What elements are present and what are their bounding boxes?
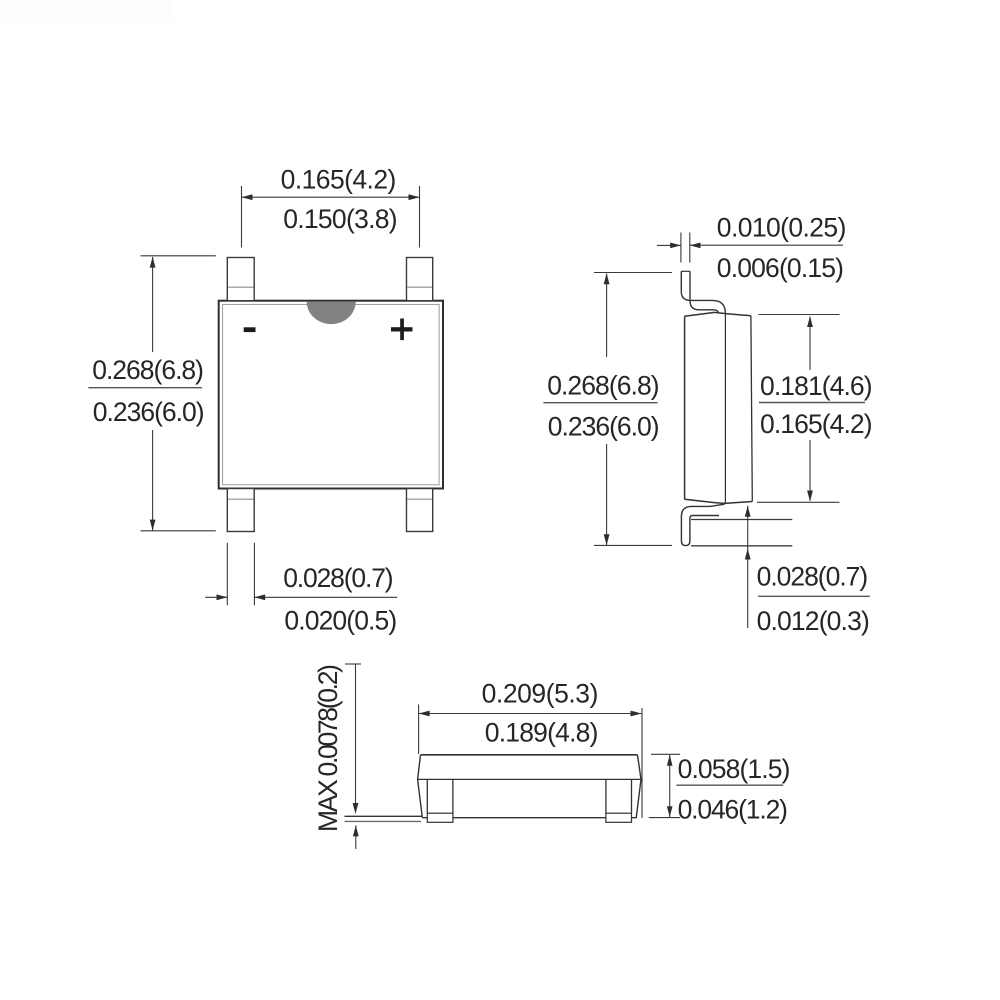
dimension MAX 0.0078(0.2) standoff (end view left) (345, 664, 361, 849)
svg-text:MAX 0.0078(0.2): MAX 0.0078(0.2) (313, 664, 343, 832)
svg-text:0.165(4.2): 0.165(4.2) (281, 165, 397, 195)
dimension 0.268(6.8)/0.236(6.0) left of side view (594, 273, 672, 546)
package body outline (front view) (219, 301, 443, 489)
svg-text:0.268(6.8): 0.268(6.8) (92, 355, 204, 385)
svg-text:0.020(0.5): 0.020(0.5) (284, 606, 397, 636)
right foot lead (end view) (606, 779, 632, 813)
mold parting line (end view) (418, 778, 641, 780)
dimension 0.165(4.2)/0.150(3.8) top of front view (242, 186, 420, 248)
package body outline (end view) (421, 754, 638, 756)
svg-text:0.165(4.2): 0.165(4.2) (760, 409, 873, 439)
svg-text:0.028(0.7): 0.028(0.7) (757, 562, 869, 592)
polarity index notch (gray semicircle) (307, 302, 356, 325)
minus polarity mark (244, 327, 256, 332)
top lead bent over body (side view) (681, 271, 725, 313)
seating plane lines (left) (345, 815, 423, 817)
pin 4 plating band (407, 286, 432, 288)
left foot lead (end view) (427, 779, 453, 813)
package body inner mold line (front view) (223, 304, 440, 484)
dimension 0.028(0.7)/0.012(0.3) lead standoff (side view bottom) (691, 506, 792, 628)
svg-text:0.236(6.0): 0.236(6.0) (93, 397, 205, 427)
svg-text:0.268(6.8): 0.268(6.8) (547, 371, 659, 401)
pin 4 top-right lead (front view) (407, 258, 433, 301)
svg-text:0.189(4.8): 0.189(4.8) (485, 718, 599, 748)
svg-text:0.181(4.6): 0.181(4.6) (760, 371, 873, 401)
svg-text:0.150(3.8): 0.150(3.8) (283, 204, 397, 234)
pin 2 bottom-left lead (front view) (227, 489, 254, 532)
pin 1 top-left lead (front view) (227, 258, 254, 301)
dimension 0.181(4.6)/0.165(4.2) right of side view (757, 315, 840, 503)
dimension 0.268(6.8)/0.236(6.0) left of front view (141, 256, 216, 531)
body bottom line (end view) (422, 817, 636, 819)
dimension 0.028(0.7)/0.020(0.5) bottom of front view (205, 543, 397, 605)
plus polarity mark (391, 319, 413, 341)
pin 1 plating band (228, 286, 254, 288)
pin 3 bottom-right lead (front view) (407, 489, 433, 532)
svg-text:0.046(1.2): 0.046(1.2) (678, 795, 788, 825)
svg-text:0.236(6.0): 0.236(6.0) (548, 412, 660, 442)
dimension 0.010(0.25)/0.006(0.15) lead thickness (side view top) (657, 233, 843, 263)
pin 2 plating band (228, 498, 254, 500)
dimension 0.058(1.5)/0.046(1.2) right of end view (649, 754, 680, 817)
package body face division line (side view) (724, 314, 726, 503)
svg-text:0.006(0.15): 0.006(0.15) (717, 253, 844, 283)
bottom lead bent under body (side view) (681, 504, 724, 545)
package body outline (side view) (684, 316, 686, 499)
svg-text:0.209(5.3): 0.209(5.3) (482, 679, 599, 709)
svg-text:0.010(0.25): 0.010(0.25) (717, 213, 847, 243)
faint watermark remnant top-left (0, 0, 172, 22)
pin 3 plating band (407, 498, 432, 500)
svg-text:0.012(0.3): 0.012(0.3) (757, 606, 870, 636)
dimension 0.209(5.3)/0.189(4.8) top of end view (419, 705, 642, 819)
svg-text:0.028(0.7): 0.028(0.7) (283, 563, 393, 593)
svg-text:0.058(1.5): 0.058(1.5) (678, 754, 791, 784)
